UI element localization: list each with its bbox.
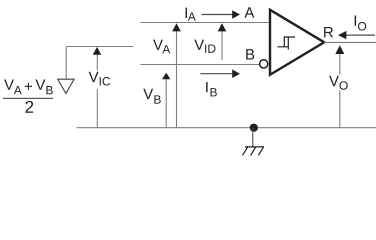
label IO: [355, 15, 366, 30]
chassis ground symbol: [243, 147, 265, 155]
voltage arrow VIC: [93, 47, 102, 128]
voltage arrow VO: [335, 45, 344, 128]
voltage arrow VID: [218, 23, 227, 60]
current arrow IO: [338, 31, 375, 39]
label R (output node): [324, 27, 333, 37]
wire: ground stub: [252, 128, 254, 148]
current arrow IA: [202, 10, 241, 19]
label VIC: [88, 70, 111, 89]
voltage arrow VB: [162, 73, 170, 128]
wire: VIC tap vertical drop: [65, 47, 67, 80]
ground rail wire: [77, 127, 376, 129]
node label B: [246, 49, 254, 59]
label VO: [329, 75, 350, 91]
common-mode point: open triangle arrowhead: [58, 79, 74, 93]
label (VA+VB)/2: [3, 79, 53, 112]
hysteresis symbol inside comparator: [278, 37, 296, 50]
wire: VIC tap horizontal: [66, 46, 133, 48]
label VA: [153, 40, 170, 54]
inverting input bubble on B: [260, 60, 268, 68]
node label A: [244, 7, 254, 17]
label IA: [186, 8, 196, 21]
current arrow IB: [201, 69, 241, 78]
label VB: [143, 89, 161, 104]
comparator U1: [270, 10, 324, 75]
wire: input A (node A line): [141, 22, 271, 24]
label VID: [194, 40, 215, 53]
label IB: [206, 82, 217, 97]
voltage arrow VA: [172, 23, 181, 128]
wire: output: [324, 41, 376, 43]
wire: input B (node B line): [141, 64, 260, 66]
junction dot on rail: [250, 124, 258, 132]
